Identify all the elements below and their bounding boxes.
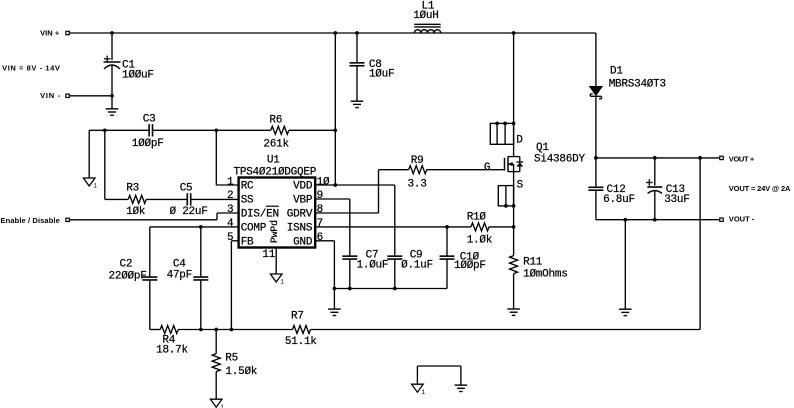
wire GND pin — [315, 241, 334, 289]
svg-text:1.5Øk: 1.5Øk — [225, 366, 257, 378]
svg-text:DIS/EN: DIS/EN — [241, 209, 279, 221]
capacitor C4 — [167, 258, 209, 281]
resistor R11 — [510, 256, 568, 281]
U1 PwPd label — [269, 220, 281, 243]
svg-text:22ØØpF: 22ØØpF — [109, 271, 147, 283]
svg-text:1.ØuF: 1.ØuF — [357, 259, 389, 271]
wire VDD riser — [334, 33, 336, 185]
resistor R10 — [467, 211, 493, 246]
capacitor C10 — [440, 252, 486, 273]
svg-text:R7: R7 — [291, 311, 304, 323]
node junction COMP C4 — [199, 225, 203, 229]
svg-text:FB: FB — [241, 236, 254, 248]
svg-text:9: 9 — [317, 190, 323, 202]
svg-text:G: G — [484, 162, 490, 174]
svg-text:C2: C2 — [120, 258, 133, 270]
wire FB — [231, 241, 238, 330]
wire C4 branch — [200, 227, 202, 330]
svg-text:Enable / Disable: Enable / Disable — [1, 216, 60, 225]
svg-text:Q1: Q1 — [536, 142, 549, 154]
U1 pin 11 stem — [262, 248, 276, 275]
node input spec label — [2, 64, 60, 73]
wire VIN+ top rail — [69, 32, 596, 34]
ground bypass rail — [328, 309, 341, 315]
svg-text:VOUT = 24V @ 2A: VOUT = 24V @ 2A — [729, 184, 791, 193]
svg-text:VBP: VBP — [293, 195, 313, 207]
resistor R6 — [263, 114, 289, 150]
svg-text:D1: D1 — [610, 65, 623, 77]
node output spec label — [729, 184, 791, 193]
node junction FB row FB — [230, 328, 234, 332]
wire enable — [69, 213, 239, 220]
wire C8 branch — [356, 33, 358, 101]
svg-text:5: 5 — [227, 232, 233, 244]
wire FB row — [150, 329, 700, 331]
node junction C13 bottom — [653, 218, 657, 222]
capacitor C13 — [646, 179, 690, 206]
node VIN+ terminal — [40, 28, 69, 37]
svg-text:1.Øk: 1.Øk — [467, 235, 493, 247]
node junction D1 VOUT — [594, 156, 598, 160]
svg-text:C3: C3 — [143, 114, 156, 126]
svg-text:8: 8 — [317, 204, 323, 216]
wire C13 branch — [654, 158, 656, 220]
ground C1 — [106, 109, 119, 115]
wire C2 branch — [149, 227, 151, 330]
resistor R5 — [212, 352, 258, 377]
svg-text:1ØmOhms: 1ØmOhms — [523, 268, 567, 280]
resistor R7 — [285, 311, 317, 349]
wire ISNS row — [315, 226, 513, 228]
capacitor C5 — [170, 183, 208, 219]
ground net 1 flag R5 — [210, 399, 224, 408]
svg-text:Ø 22uF: Ø 22uF — [170, 206, 208, 218]
svg-text:4: 4 — [227, 218, 234, 230]
svg-text:R1Ø: R1Ø — [467, 211, 487, 223]
node junction VIN- C1 — [110, 94, 114, 98]
svg-text:VIN +: VIN + — [40, 28, 60, 37]
capacitor C3 — [132, 114, 164, 151]
svg-text:PwPd: PwPd — [269, 220, 281, 243]
node VOUT- terminal — [720, 214, 755, 223]
node junction VDD riser top — [333, 31, 337, 35]
svg-text:COMP: COMP — [241, 222, 267, 234]
U1 pin numbers left — [227, 176, 234, 244]
wire VIN- segment — [69, 95, 112, 97]
svg-text:1ØuF: 1ØuF — [369, 68, 394, 80]
capacitor C8 — [350, 59, 395, 80]
wire gnd stem bypass — [333, 289, 335, 310]
svg-text:1: 1 — [93, 183, 97, 190]
capacitor C1 — [104, 56, 154, 82]
wire Q1 source — [514, 172, 524, 227]
svg-text:1: 1 — [220, 404, 224, 408]
node junction FB row R5 — [214, 328, 218, 332]
svg-text:1: 1 — [227, 176, 234, 188]
capacitor C12 — [588, 184, 634, 206]
svg-text:33uF: 33uF — [664, 194, 689, 206]
svg-text:GND: GND — [293, 236, 313, 248]
svg-text:S: S — [517, 180, 524, 192]
wire feedback riser — [699, 158, 701, 330]
wire VDD pin row — [315, 184, 395, 186]
node junction C8 top — [355, 31, 359, 35]
wire RC row — [89, 129, 335, 131]
wire top rail corner to D1 — [595, 33, 597, 86]
resistor R3 — [126, 183, 146, 218]
node VIN- terminal — [40, 91, 69, 100]
node junction RC riser — [214, 128, 218, 132]
capacitor C7 — [342, 250, 388, 272]
ground R11 — [507, 309, 520, 315]
node junction R6 right — [333, 128, 337, 132]
svg-text:1: 1 — [422, 389, 426, 396]
wire R3 row — [105, 198, 239, 200]
node junction R3 branch — [103, 128, 107, 132]
svg-text:Si4386DY: Si4386DY — [534, 154, 585, 166]
svg-text:R6: R6 — [269, 114, 282, 126]
ground net 1 flag tie — [412, 384, 426, 396]
ground C8 — [351, 101, 364, 107]
resistor R4 — [156, 326, 188, 357]
svg-text:1: 1 — [280, 279, 284, 286]
wire VOUT- rail — [596, 219, 720, 221]
svg-text:1Øk: 1Øk — [126, 206, 146, 218]
svg-text:2: 2 — [227, 190, 233, 202]
node Enable terminal — [1, 216, 70, 225]
wire R5 branch — [215, 330, 217, 400]
svg-text:11: 11 — [262, 249, 275, 261]
svg-text:6.8uF: 6.8uF — [603, 194, 635, 206]
svg-text:TPS4Ø21ØDGQEP: TPS4Ø21ØDGQEP — [234, 166, 317, 178]
wire bypass ground rail — [334, 288, 447, 290]
node junction ISNS source — [512, 225, 516, 229]
svg-text:1Ø: 1Ø — [317, 176, 330, 188]
capacitor C9 — [387, 250, 433, 272]
node junction gnd rail pin6 — [333, 287, 337, 291]
svg-text:RC: RC — [241, 181, 254, 193]
wire C1 branch — [111, 33, 113, 109]
node junction drain riser top — [512, 31, 516, 35]
svg-text:47pF: 47pF — [167, 270, 192, 282]
node VOUT+ terminal — [720, 155, 755, 164]
wire net1 stem left — [88, 130, 90, 178]
node junction C13 top — [653, 156, 657, 160]
svg-text:R5: R5 — [225, 352, 238, 364]
wire VBP pin row — [315, 199, 350, 289]
svg-text:7: 7 — [317, 218, 323, 230]
node junction C1 top — [110, 31, 114, 35]
svg-text:VOUT -: VOUT - — [729, 214, 755, 223]
svg-text:C4: C4 — [173, 258, 186, 270]
svg-text:Ø.1uF: Ø.1uF — [401, 259, 433, 271]
svg-text:1ØØpF: 1ØØpF — [454, 260, 486, 272]
wire GDRV to R9 — [315, 170, 504, 213]
node junction FB row C4 — [199, 328, 203, 332]
svg-text:C5: C5 — [180, 183, 193, 195]
wire COMP row — [150, 226, 239, 228]
node source package pins box — [498, 186, 515, 208]
wire C12 branch — [595, 158, 597, 220]
svg-text:R3: R3 — [126, 183, 139, 195]
node junction gnd rail C9 — [393, 287, 397, 291]
op-amp U1 TPS40210DGQEP box — [234, 154, 317, 247]
resistor R9 — [408, 155, 427, 191]
wire VOUT+ rail — [596, 157, 720, 159]
wire net tie bridge — [417, 366, 461, 385]
ground net 1 flag pin11 — [270, 274, 284, 286]
wire drain riser — [513, 33, 515, 157]
node junction gnd rail C7 — [348, 287, 352, 291]
svg-text:1ØuH: 1ØuH — [413, 10, 438, 22]
svg-text:1ØØuF: 1ØØuF — [122, 70, 154, 82]
svg-text:261k: 261k — [263, 139, 289, 151]
wire R3 branch riser — [104, 130, 106, 199]
wire C9 branch — [394, 185, 396, 289]
svg-text:VOUT +: VOUT + — [729, 155, 755, 164]
wire R11 branch — [513, 227, 515, 309]
svg-text:R9: R9 — [411, 155, 424, 167]
svg-text:18.7k: 18.7k — [156, 344, 188, 356]
svg-text:3: 3 — [227, 204, 233, 216]
wire C10 branch — [446, 227, 448, 289]
node junction C10 top — [445, 225, 449, 229]
inductor L1 — [413, 0, 441, 33]
svg-text:MBRS34ØT3: MBRS34ØT3 — [609, 79, 666, 91]
U1 pin names right — [287, 181, 313, 249]
svg-text:VIN = 8V - 14V: VIN = 8V - 14V — [2, 64, 60, 73]
svg-text:3.3: 3.3 — [408, 178, 427, 190]
transistor Q1 Si4386DY — [484, 142, 586, 174]
svg-text:6: 6 — [317, 232, 323, 244]
node junction feedback top — [698, 156, 702, 160]
svg-text:U1: U1 — [267, 154, 280, 166]
U1 pin names left — [241, 181, 279, 249]
svg-text:GDRV: GDRV — [287, 209, 313, 221]
wire VOUT- gnd drop — [624, 220, 626, 310]
svg-text:1ØØpF: 1ØØpF — [132, 138, 164, 150]
svg-text:VIN -: VIN - — [40, 91, 61, 100]
svg-text:SS: SS — [241, 195, 254, 207]
diode D1 — [590, 65, 666, 158]
U1 pin numbers right — [317, 176, 330, 244]
capacitor C2 — [109, 258, 158, 282]
wire RC riser — [216, 130, 238, 185]
svg-text:ISNS: ISNS — [287, 222, 313, 234]
svg-text:51.1k: 51.1k — [285, 336, 317, 348]
node junction VDD riser — [333, 183, 337, 187]
ground tie — [455, 385, 468, 391]
ground VOUT- — [619, 309, 632, 315]
ground net 1 flag left — [83, 178, 97, 190]
node junction VOUT- gnd drop — [623, 218, 627, 222]
svg-text:R11: R11 — [523, 256, 543, 268]
node drain package pins box — [490, 122, 523, 147]
svg-text:VDD: VDD — [293, 181, 313, 193]
svg-text:D: D — [516, 134, 523, 146]
